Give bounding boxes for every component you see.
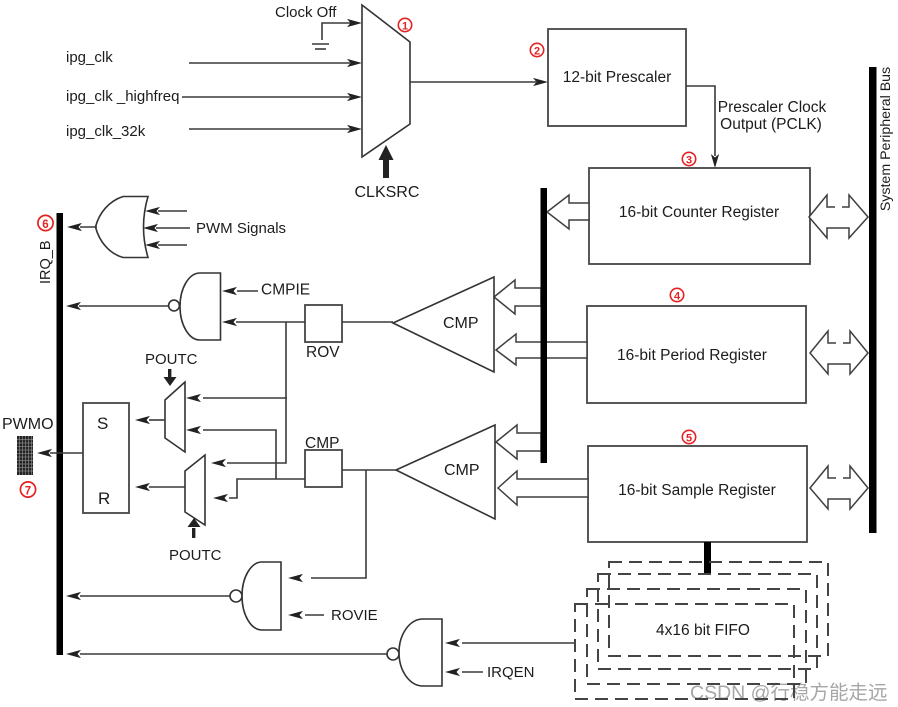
svg-text:PWMO: PWMO (2, 416, 54, 433)
FIFO dashed box 1 (609, 562, 828, 656)
marker 6 (38, 215, 53, 230)
arrow into mux1 input1 (186, 394, 201, 402)
svg-text:CLKSRC: CLKSRC (355, 184, 420, 201)
compare bus bar (541, 188, 548, 463)
wire nand IRQEN output to IRQ_B (66, 650, 387, 658)
wire CMP box output routing to muxes (186, 426, 305, 502)
wire ipg_clk_highfreq (182, 93, 362, 101)
svg-text:ipg_clk _highfreq: ipg_clk _highfreq (66, 88, 179, 105)
marker 2 (530, 43, 543, 57)
output mux MUX1 (165, 382, 185, 452)
wire CMP2 apex to CMP box (342, 469, 396, 471)
wire mux2 output to R (135, 483, 185, 491)
svg-text:16-bit Sample Register: 16-bit Sample Register (618, 482, 776, 499)
wire ipg_clk (189, 59, 362, 67)
FIFO dashed box 3 (587, 589, 806, 684)
POUTC select arrow down into mux1 (164, 369, 177, 386)
svg-text:S: S (97, 414, 108, 433)
wire IRQEN input2 (445, 668, 483, 676)
svg-text:ipg_clk_32k: ipg_clk_32k (66, 123, 146, 140)
label Prescaler Clock Output (PCLK) (718, 99, 827, 133)
IRQ_B bar (57, 213, 64, 655)
wire ipg_clk_32k (189, 125, 362, 133)
svg-text:CMP: CMP (443, 315, 479, 332)
CLKSRC select arrow (379, 145, 394, 178)
nand gate CMPIE (169, 273, 221, 340)
svg-text:CMP: CMP (444, 462, 480, 479)
ground (312, 44, 329, 49)
wire mux output to prescaler (410, 78, 548, 86)
svg-text:Clock Off: Clock Off (275, 4, 337, 21)
wire ROV branch down to mux inputs (227, 322, 286, 463)
nand gate ROVIE (230, 562, 281, 630)
svg-text:CSDN @行稳方能走远: CSDN @行稳方能走远 (690, 682, 887, 704)
svg-text:4: 4 (674, 291, 681, 303)
marker 7 (20, 482, 35, 497)
wire PWM input2 (143, 224, 190, 232)
svg-text:IRQ_B: IRQ_B (38, 240, 54, 284)
svg-text:3: 3 (686, 155, 692, 167)
wire mux1 output to S (135, 416, 165, 424)
wire IRQEN input1 from FIFO (445, 639, 575, 647)
bus double arrow sample (810, 466, 868, 509)
svg-text:5: 5 (686, 433, 692, 445)
svg-text:16-bit Period Register: 16-bit Period Register (617, 347, 767, 364)
12-bit Prescaler U2 (548, 29, 686, 126)
svg-text:System Peripheral Bus: System Peripheral Bus (878, 67, 894, 211)
wire CMP junction down to nand ROVIE input1 (288, 470, 366, 582)
wire or gate output to IRQ_B (67, 223, 97, 231)
svg-text:7: 7 (25, 485, 31, 497)
flip-flop S/R (83, 403, 129, 513)
bus double arrow period (810, 331, 868, 374)
wire CMP1 apex to ROV (342, 321, 393, 323)
comparator CMP2 (396, 425, 495, 519)
svg-text:R: R (98, 489, 110, 508)
PWMO pad (17, 436, 33, 475)
16-bit Sample Register U5 (588, 446, 807, 542)
ROV box (305, 305, 342, 361)
output mux MUX2 (185, 455, 205, 525)
arrow into mux2 input1 (211, 459, 226, 467)
wire nand ROVIE output to IRQ_B (66, 592, 230, 600)
wire PCLK prescaler to counter (686, 86, 719, 168)
svg-text:Output (PCLK): Output (PCLK) (720, 116, 822, 133)
svg-text:POUTC: POUTC (145, 351, 198, 368)
svg-text:4x16 bit FIFO: 4x16 bit FIFO (656, 622, 750, 639)
wire nand CMPIE output to IRQ_B (66, 302, 168, 310)
wire ROVIE input2 (288, 611, 324, 619)
svg-text:Prescaler Clock: Prescaler Clock (718, 99, 827, 116)
hollow arrow compare bus to CMP2 (496, 425, 541, 459)
FIFO dashed box 2 (598, 574, 817, 669)
marker 1 (398, 18, 411, 32)
16-bit Counter Register U3 (589, 168, 810, 264)
svg-text:PWM Signals: PWM Signals (196, 220, 286, 237)
wire PWM input1 (145, 207, 187, 215)
wire clock-off to mux (322, 19, 362, 40)
svg-text:1: 1 (402, 21, 408, 33)
wire PWM input3 (145, 241, 187, 249)
svg-text:6: 6 (42, 219, 48, 231)
hollow arrow counter to compare bus (547, 195, 589, 229)
svg-text:ipg_clk: ipg_clk (66, 49, 113, 66)
svg-text:2: 2 (534, 46, 540, 58)
svg-text:12-bit Prescaler: 12-bit Prescaler (563, 69, 672, 86)
svg-text:CMP: CMP (305, 435, 339, 452)
svg-text:CMPIE: CMPIE (261, 282, 310, 299)
marker 4 (670, 288, 683, 302)
FIFO stub bar (704, 542, 711, 575)
hollow arrow sample register to CMP2 (498, 471, 588, 505)
nand gate IRQEN (387, 619, 442, 686)
marker 3 (682, 152, 695, 166)
svg-text:16-bit Counter Register: 16-bit Counter Register (619, 204, 779, 221)
marker 5 (682, 430, 695, 444)
comparator CMP1 (393, 277, 494, 372)
svg-text:ROV: ROV (306, 344, 340, 361)
wire ROV to nand CMPIE input2 (222, 318, 305, 326)
hollow arrow period register to CMP1 (496, 334, 587, 365)
wire flip-flop output to PWMO (37, 449, 83, 457)
hollow arrow compare bus to CMP1 (494, 280, 541, 314)
wire CMPIE input1 (222, 287, 258, 295)
CMP box (sample compare) (305, 435, 342, 487)
svg-text:POUTC: POUTC (169, 547, 222, 564)
svg-text:IRQEN: IRQEN (487, 664, 535, 681)
clock mux U1 (362, 5, 410, 157)
POUTC select arrow up into mux2 (188, 518, 201, 538)
FIFO dashed box 4 (575, 604, 794, 699)
system peripheral bus bar (869, 67, 877, 533)
16-bit Period Register U4 (587, 306, 806, 403)
svg-text:ROVIE: ROVIE (331, 607, 378, 624)
wire branch to mux1 input1 (203, 397, 287, 399)
bus double arrow counter (809, 195, 868, 238)
or gate PWM signals (96, 197, 149, 258)
